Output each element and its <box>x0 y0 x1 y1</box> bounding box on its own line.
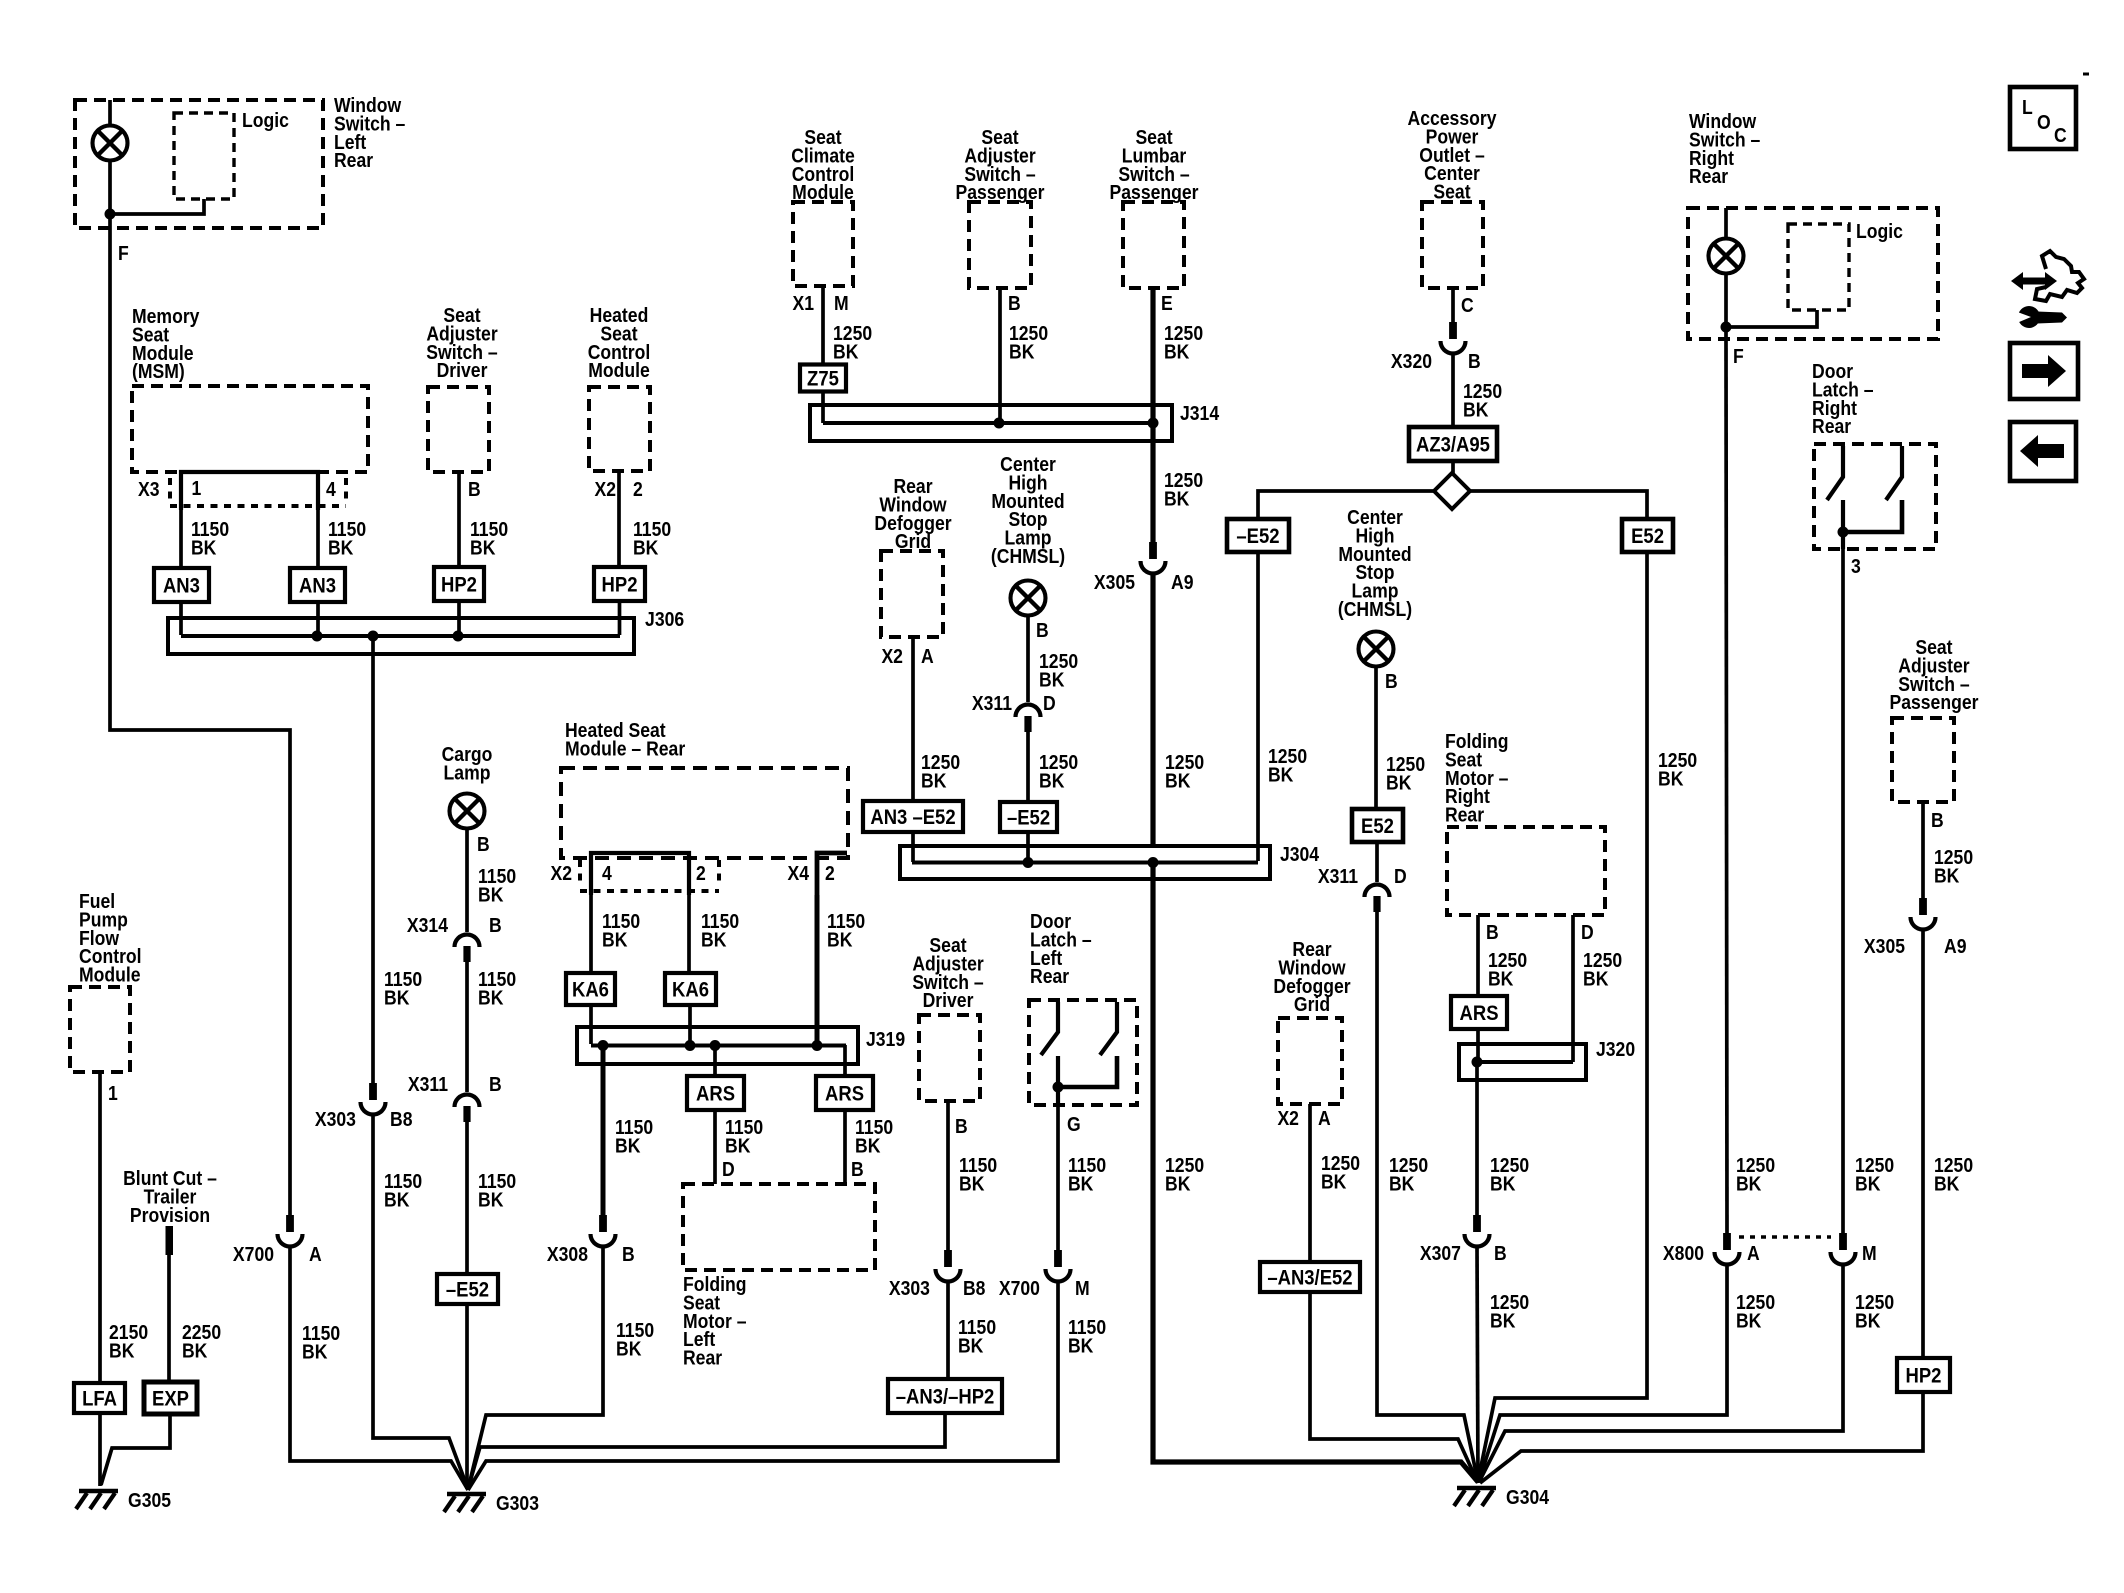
svg-text:B8: B8 <box>963 1277 985 1299</box>
circuit tag KA6 <box>665 973 716 1005</box>
wire: window switch F to X700 <box>110 228 290 1215</box>
svg-text:B8: B8 <box>390 1108 412 1130</box>
junction inside window switch <box>105 209 116 220</box>
wire: EXP to G305 <box>101 1414 170 1485</box>
svg-text:C: C <box>1461 294 1474 316</box>
circuit tag -AN3/-HP2 <box>888 1379 1002 1413</box>
wire: -AN3/E52 to G304 <box>1310 1292 1478 1483</box>
svg-text:–E52: –E52 <box>1007 807 1050 830</box>
svg-text:B: B <box>1385 670 1398 692</box>
connector X311 (D) <box>1365 885 1390 913</box>
svg-text:X2: X2 <box>1277 1107 1299 1129</box>
svg-text:ARS: ARS <box>1460 1002 1499 1025</box>
module: Door Latch - Right Rear (dashed box) <box>1814 444 1936 549</box>
module: Seat Climate Control Module (dashed box) <box>793 202 853 286</box>
lamp: CHMSL <box>1011 581 1046 616</box>
switch contacts inside door latch left rear <box>1041 1002 1058 1055</box>
svg-text:O: O <box>2037 111 2051 133</box>
wire: X308 to G303 <box>468 1246 603 1489</box>
circuit tag ARS (left) <box>687 1076 744 1110</box>
wire: E52 to X311 <box>1375 842 1379 882</box>
navigation box: back arrow <box>2010 422 2076 481</box>
wire: AN3 -E52 to J304 <box>911 832 915 862</box>
connector X2 of heated seat module (pins 4 and 2) <box>591 853 689 895</box>
wire: blunt cut to EXP <box>167 1255 171 1382</box>
circuit tag ARS (right) <box>816 1076 873 1110</box>
svg-text:4: 4 <box>602 862 612 884</box>
wire: Z75 to J314 <box>821 391 825 423</box>
wire: HP2 to J306 <box>618 601 622 635</box>
svg-text:G: G <box>1067 1113 1081 1135</box>
svg-text:X800: X800 <box>1663 1242 1704 1264</box>
svg-text:X700: X700 <box>233 1243 274 1265</box>
circuit tag Z75 <box>800 365 846 392</box>
circuit tag E52 <box>1622 519 1673 552</box>
svg-text:HP2: HP2 <box>1906 1365 1942 1388</box>
svg-text:CenterHighMountedStopLamp(CHMS: CenterHighMountedStopLamp(CHMSL) <box>1338 506 1412 620</box>
circuit tag KA6 <box>566 973 615 1005</box>
wire: X314 to X311 <box>465 962 469 1092</box>
svg-text:B: B <box>489 1073 502 1095</box>
wire: seat lumbar E down through J314 to X305 <box>1150 288 1155 542</box>
svg-text:4: 4 <box>326 478 336 500</box>
svg-text:E52: E52 <box>1631 525 1664 548</box>
wire: MSM pin1 to AN3 <box>179 510 183 568</box>
circuit tag -E52 <box>1227 519 1289 552</box>
svg-text:D: D <box>1581 921 1594 943</box>
svg-text:M: M <box>1075 1277 1090 1299</box>
module: Seat Adjuster Switch - Passenger (dashed box) <box>1892 718 1954 802</box>
wire: E52 to G304 <box>1478 552 1647 1481</box>
lamp inside Window Switch - Left Rear <box>93 126 128 161</box>
module: Heated Seat Control Module (dashed box) <box>589 387 650 471</box>
ground G305 <box>76 1489 171 1511</box>
wire: fuel pump module to LFA <box>98 1072 102 1383</box>
navigation glyph: double arrow with outline and wrench <box>2011 251 2084 328</box>
connector X314 (B) <box>455 934 480 962</box>
connector X800 (M) <box>1831 1233 1856 1265</box>
wire: accessory outlet C to X320 <box>1451 288 1455 322</box>
svg-text:Logic: Logic <box>1856 220 1903 242</box>
lamp: Cargo Lamp <box>450 794 485 829</box>
wire inside door latch <box>1056 1056 1060 1105</box>
svg-text:EXP: EXP <box>152 1388 189 1411</box>
blunt cut terminal symbol <box>166 1226 174 1255</box>
circuit tag -AN3/E52 <box>1260 1262 1360 1292</box>
wire: X2-2 to KA6 <box>687 895 691 973</box>
svg-text:B: B <box>1008 292 1021 314</box>
wire: ARS to J320 <box>1476 1029 1480 1062</box>
wire: X311 to G304 <box>1377 912 1478 1482</box>
svg-text:C: C <box>2054 124 2067 146</box>
svg-text:D: D <box>722 1158 735 1180</box>
svg-text:B: B <box>851 1158 864 1180</box>
circuit tag AN3 (pin4 wire) <box>290 568 345 602</box>
svg-text:X1: X1 <box>792 292 814 314</box>
svg-text:X305: X305 <box>1094 571 1135 593</box>
lamp: CHMSL (right) <box>1359 632 1394 667</box>
wire: AZ3/A95 to splice diamond <box>1451 461 1455 473</box>
wire inside door latch <box>1843 500 1902 532</box>
svg-text:2: 2 <box>825 862 835 884</box>
svg-text:ARS: ARS <box>696 1083 735 1106</box>
svg-text:G304: G304 <box>1506 1486 1550 1508</box>
circuit tag EXP <box>144 1382 197 1414</box>
wire: -AN3/-HP2 to G303 <box>468 1413 945 1489</box>
svg-text:B: B <box>1036 619 1049 641</box>
module: Seat Adjuster Switch - Driver (dashed box) <box>919 1015 980 1101</box>
wire: seat adjuster driver B to X303 <box>946 1101 950 1250</box>
svg-text:E: E <box>1161 292 1173 314</box>
svg-text:L: L <box>2022 96 2033 118</box>
wire: X303 to G303 <box>373 1114 468 1489</box>
wire: seat adjuster passenger B to X305 <box>1921 802 1925 898</box>
navigation box: forward arrow <box>2010 343 2078 399</box>
module: Memory Seat Module (dashed box) <box>132 386 368 472</box>
circuit tag HP2 <box>434 567 484 601</box>
svg-text:HeatedSeatControlModule: HeatedSeatControlModule <box>588 304 651 381</box>
wire: X2-4 to KA6 <box>589 895 593 973</box>
module: Rear Window Defogger Grid (dashed box) <box>1278 1018 1342 1104</box>
splice diamond node <box>1434 473 1470 509</box>
wire: AN3 to J306 <box>316 602 320 635</box>
svg-text:–E52: –E52 <box>1236 525 1279 548</box>
X2 strip left dashed edge <box>578 860 582 884</box>
wire: X303 to -AN3/-HP2 tag <box>946 1281 950 1379</box>
svg-text:A9: A9 <box>1171 571 1193 593</box>
svg-text:A: A <box>309 1243 322 1265</box>
Logic block (dashed) <box>1788 224 1849 310</box>
module: Door Latch - Left Rear (dashed box) <box>1029 1000 1137 1105</box>
tiny reference mark <box>2083 73 2089 76</box>
connector X311 (D) <box>1016 705 1041 733</box>
svg-text:A: A <box>921 645 934 667</box>
wire: MSM pin4 to AN3 <box>316 510 320 568</box>
lamp inside Window Switch - Right Rear <box>1709 239 1744 274</box>
wire: ARS to folding seat motor left <box>843 1110 847 1184</box>
wire: J320 to X307 <box>1475 1062 1479 1215</box>
svg-text:KA6: KA6 <box>572 979 609 1002</box>
circuit tag HP2 <box>1897 1358 1950 1392</box>
wire: X311 to -E52 tag <box>465 1122 469 1274</box>
wire: window switch F to X800 <box>1726 339 1727 1233</box>
svg-text:J306: J306 <box>645 608 684 630</box>
wire: X311 to -E52 tag <box>1026 732 1030 803</box>
connector X303 (B8) <box>361 1083 386 1115</box>
junction inside window switch <box>1721 322 1732 333</box>
svg-text:AN3: AN3 <box>163 575 200 598</box>
svg-text:F: F <box>118 242 129 264</box>
svg-text:F: F <box>1733 345 1744 367</box>
wire: X800 M to G304 <box>1479 1264 1843 1482</box>
splice pack J320 <box>1459 1038 1635 1080</box>
svg-text:3: 3 <box>1851 555 1861 577</box>
module: Seat Lumbar Switch - Passenger (dashed box) <box>1123 202 1184 288</box>
wire: folding seat motor B to ARS <box>1476 915 1480 996</box>
wire from box top to lamp <box>1724 208 1728 239</box>
svg-text:1: 1 <box>191 477 201 499</box>
svg-text:J320: J320 <box>1596 1038 1635 1060</box>
svg-text:B: B <box>1486 921 1499 943</box>
module: Seat Adjuster Switch - Driver (dashed box) <box>428 387 489 472</box>
wire: CHMSL B to X311 <box>1026 616 1030 703</box>
circuit tag E52 <box>1352 809 1403 842</box>
wire from box top to lamp <box>108 100 112 126</box>
wire: ARS to folding seat motor left <box>713 1110 717 1184</box>
svg-text:M: M <box>834 292 849 314</box>
connector X311 (B) <box>455 1095 480 1123</box>
wire: HP2 to G304 <box>1480 1392 1923 1483</box>
svg-text:X303: X303 <box>889 1277 930 1299</box>
module: Window Switch - Right Rear (outer dashed box) <box>1688 208 1938 339</box>
connector X4 of heated seat module (pin 2) <box>817 853 847 895</box>
svg-text:AN3: AN3 <box>299 575 336 598</box>
wire: heated seat control X2-2 to HP2 <box>617 471 621 567</box>
ground G304 <box>1454 1486 1550 1508</box>
connector X320 (B) <box>1441 322 1466 354</box>
wire: KA6 to J319 <box>589 1005 593 1044</box>
svg-text:M: M <box>1862 1242 1877 1264</box>
junction inside door latch <box>1053 1082 1064 1093</box>
splice pack J304 <box>900 843 1320 879</box>
svg-text:B: B <box>489 914 502 936</box>
module: Rear Window Defogger Grid (dashed box) <box>881 551 943 637</box>
Logic block (dashed) <box>174 113 234 199</box>
svg-text:X308: X308 <box>547 1243 588 1265</box>
wire: folding seat motor D to J320 <box>1571 915 1575 1062</box>
svg-text:J304: J304 <box>1280 843 1320 865</box>
module: Fuel Pump Flow Control Module (dashed box) <box>70 987 130 1072</box>
wire: diamond to E52 (right branch) <box>1470 491 1647 519</box>
svg-text:B: B <box>477 833 490 855</box>
svg-text:A: A <box>1318 1107 1331 1129</box>
wire from junction to Logic block <box>110 199 204 214</box>
svg-text:–AN3/E52: –AN3/E52 <box>1267 1267 1352 1290</box>
connector X700 (M) <box>1046 1250 1071 1282</box>
module: Folding Seat Motor - Left Rear (dashed box) <box>683 1184 875 1270</box>
svg-text:J319: J319 <box>866 1028 905 1050</box>
svg-text:X2: X2 <box>550 862 572 884</box>
svg-text:HP2: HP2 <box>602 574 638 597</box>
svg-text:B: B <box>622 1243 635 1265</box>
wire: CHMSL B to E52 tag <box>1374 667 1378 810</box>
circuit tag AN3 (pin1 wire) <box>154 568 209 602</box>
wire: door latch G to X700 <box>1056 1105 1060 1250</box>
svg-text:X320: X320 <box>1391 350 1432 372</box>
wire: X800 A to G304 <box>1479 1264 1727 1481</box>
wire inside door latch <box>1841 500 1845 549</box>
svg-text:X311: X311 <box>972 692 1012 714</box>
svg-text:HP2: HP2 <box>441 574 477 597</box>
svg-text:B: B <box>955 1115 968 1137</box>
wire: KA6 to J319 <box>688 1005 692 1044</box>
wire: X700 M to G303 <box>468 1281 1058 1490</box>
X3 strip right dashed edge <box>344 478 348 502</box>
circuit tag -E52 <box>437 1274 498 1304</box>
X2 strip bottom dashed edge <box>580 889 719 893</box>
svg-text:CargoLamp: CargoLamp <box>442 743 493 784</box>
wire inside door latch <box>1058 1056 1117 1087</box>
wire: HP2 to J306 <box>457 601 461 635</box>
svg-text:D: D <box>1394 865 1407 887</box>
junction inside door latch <box>1838 527 1849 538</box>
svg-text:LFA: LFA <box>82 1388 117 1411</box>
svg-text:Z75: Z75 <box>807 368 839 391</box>
wire: door latch 3 to X800 <box>1841 549 1845 1233</box>
svg-text:X700: X700 <box>999 1277 1040 1299</box>
splice pack J319 <box>577 1027 905 1064</box>
dotted link between X800 cavities <box>1739 1235 1831 1239</box>
svg-text:ARS: ARS <box>825 1083 864 1106</box>
svg-text:E52: E52 <box>1361 815 1394 838</box>
svg-text:D: D <box>1043 692 1056 714</box>
svg-text:X307: X307 <box>1420 1242 1461 1264</box>
svg-text:X305: X305 <box>1864 935 1905 957</box>
X3 strip left dashed edge <box>168 478 172 502</box>
svg-text:A: A <box>1747 1242 1760 1264</box>
svg-text:B: B <box>1468 350 1481 372</box>
X2 strip right dashed edge <box>717 860 721 884</box>
wire: X4-2 to J319 <box>815 895 820 1044</box>
circuit tag AN3 -E52 <box>863 801 963 832</box>
module: Seat Adjuster Switch - Passenger (dashed box) <box>969 202 1031 288</box>
svg-text:J314: J314 <box>1180 402 1220 424</box>
connector X308 (B) <box>591 1215 616 1247</box>
connector X307 (B) <box>1465 1215 1490 1247</box>
connector X303 (B8) <box>936 1250 961 1282</box>
wire: X305 to J304 <box>1150 573 1155 846</box>
connector X3 of MSM (pins 1 and 4) <box>181 472 318 510</box>
svg-text:X2: X2 <box>594 478 616 500</box>
svg-text:AZ3/A95: AZ3/A95 <box>1416 434 1490 457</box>
wire: AN3 to J306 <box>179 602 183 635</box>
svg-text:–AN3/–HP2: –AN3/–HP2 <box>896 1386 995 1409</box>
connector X800 (A) <box>1715 1233 1740 1265</box>
wire: J304 trunk to G304 <box>1153 862 1478 1482</box>
module: Heated Seat Module - Rear (dashed box) <box>561 768 848 858</box>
svg-text:KA6: KA6 <box>672 979 709 1002</box>
connector X305 (A9) <box>1911 898 1936 930</box>
wire from lamp down through box <box>1724 274 1728 340</box>
svg-text:CenterHighMountedStopLamp(CHMS: CenterHighMountedStopLamp(CHMSL) <box>991 453 1065 567</box>
wire: diamond to -E52 (left branch) <box>1258 491 1434 519</box>
svg-text:A9: A9 <box>1944 935 1966 957</box>
wire: defogger X2-A to -AN3/E52 tag <box>1308 1104 1312 1262</box>
X3 strip bottom dashed edge <box>170 504 346 508</box>
svg-text:Logic: Logic <box>242 109 289 131</box>
connector X305 (A9) <box>1141 542 1166 573</box>
svg-text:G303: G303 <box>496 1492 539 1514</box>
wire: J319 right end to ARS <box>843 1045 847 1076</box>
svg-text:X2: X2 <box>881 645 903 667</box>
svg-text:B: B <box>1931 809 1944 831</box>
svg-text:2: 2 <box>696 862 706 884</box>
wire: -E52 to J304 right end <box>1256 552 1260 861</box>
wire: LFA to G305 <box>98 1413 102 1486</box>
splice pack J306 <box>168 608 684 654</box>
wire: X305 to HP2 <box>1921 929 1925 1358</box>
svg-text:X311: X311 <box>1318 865 1358 887</box>
wire: J306 to X303 <box>371 636 375 1083</box>
wire: seat adjuster passenger B to J314 <box>998 288 1002 423</box>
module: Accessory Power Outlet - Center Seat (dashed box) <box>1422 202 1483 288</box>
svg-text:X3: X3 <box>138 478 160 500</box>
wire: seat climate X1-M to Z75 <box>821 286 825 365</box>
circuit tag LFA <box>74 1383 125 1413</box>
ground G303 <box>444 1492 539 1514</box>
svg-text:X303: X303 <box>315 1108 356 1130</box>
wire: X307 to G304 <box>1477 1246 1478 1483</box>
svg-text:1: 1 <box>108 1082 118 1104</box>
connector X700 (A) <box>278 1215 303 1247</box>
wire: X700 A to G303 <box>290 1246 468 1490</box>
circuit tag AZ3/A95 <box>1409 427 1497 461</box>
wire: -E52 to G303 <box>465 1304 469 1489</box>
wire: J319 to X308 <box>601 1045 606 1215</box>
wire: cargo lamp to X314 <box>465 829 469 933</box>
wire: defogger X2-A to AN3 -E52 tag <box>911 637 915 801</box>
wire from lamp down through box <box>108 161 112 229</box>
circuit tag ARS <box>1451 996 1507 1029</box>
wire: seat adjuster driver B to HP2 <box>457 472 461 567</box>
svg-text:X4: X4 <box>787 862 809 884</box>
switch contacts inside door latch right rear <box>1827 446 1843 500</box>
svg-text:X314: X314 <box>407 914 449 936</box>
circuit tag HP2 <box>594 567 645 601</box>
svg-text:–E52: –E52 <box>446 1279 489 1302</box>
svg-text:AN3 –E52: AN3 –E52 <box>870 806 955 829</box>
wire: -E52 to J304 <box>1026 832 1030 862</box>
svg-text:B: B <box>468 478 481 500</box>
LOC legend box <box>2010 87 2076 149</box>
wire from junction to Logic block <box>1726 310 1817 327</box>
wire: J319 to ARS <box>713 1045 717 1076</box>
module: Folding Seat Motor - Right Rear (dashed box) <box>1447 827 1605 915</box>
svg-text:B: B <box>1494 1242 1507 1264</box>
circuit tag -E52 <box>1000 802 1057 832</box>
splice pack J314 <box>810 402 1220 441</box>
wire: X320 to AZ3/A95 tag <box>1451 353 1455 427</box>
svg-text:X311: X311 <box>408 1073 448 1095</box>
module: Window Switch - Left Rear (outer dashed box) <box>75 100 323 228</box>
svg-text:G305: G305 <box>128 1489 171 1511</box>
svg-text:2: 2 <box>633 478 643 500</box>
